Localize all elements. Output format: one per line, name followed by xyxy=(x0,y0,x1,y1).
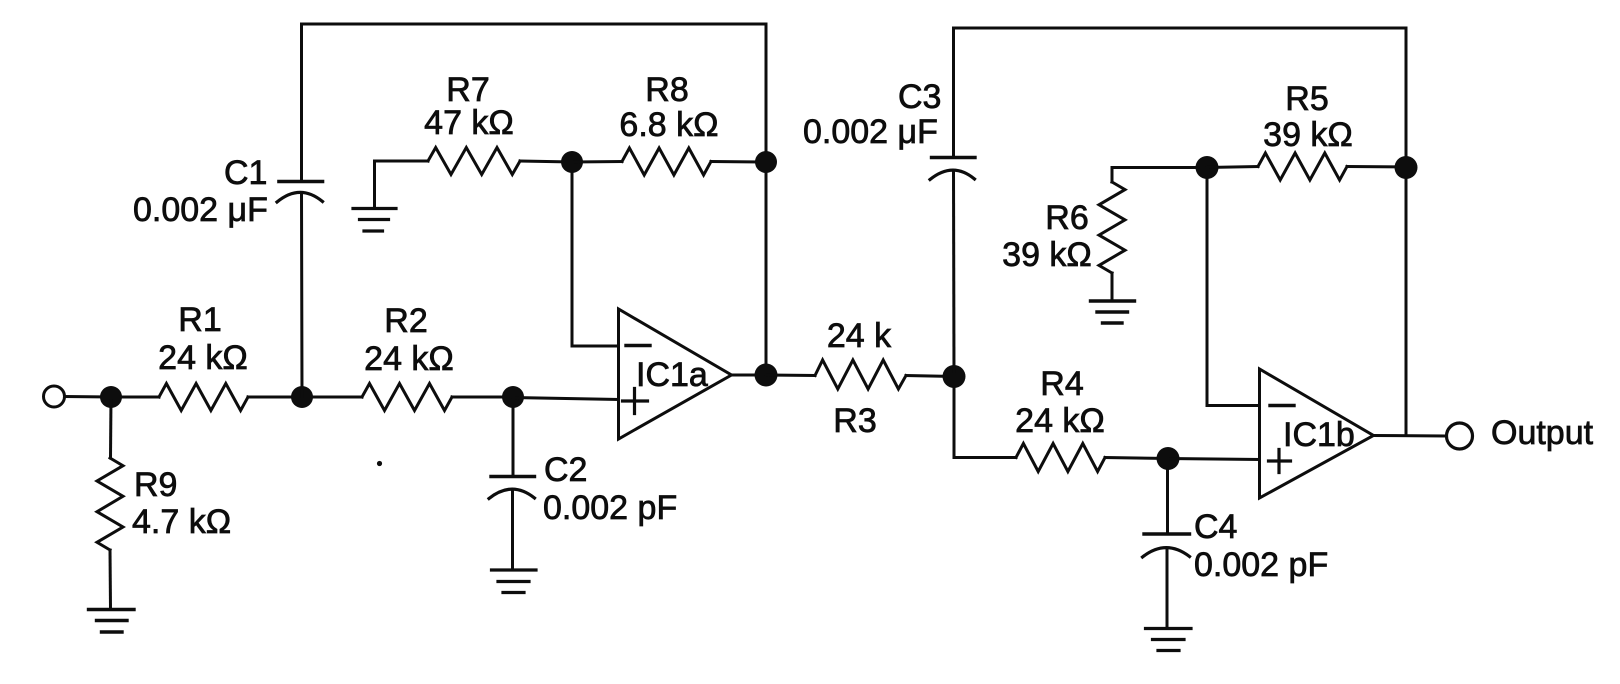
node E junction dot xyxy=(755,151,777,173)
wire R7 ground branch xyxy=(375,161,429,208)
svg-text:39 kΩ: 39 kΩ xyxy=(1002,236,1092,274)
wire node D to IC1a minus input xyxy=(572,162,618,346)
op-amp IC1b xyxy=(1260,369,1374,498)
node D junction dot xyxy=(561,151,583,173)
wire R7 to node D xyxy=(520,161,572,162)
svg-text:24 kΩ: 24 kΩ xyxy=(364,340,454,378)
node F junction dot xyxy=(755,364,778,387)
svg-text:4.7 kΩ: 4.7 kΩ xyxy=(132,503,231,541)
IC1a plus marker xyxy=(623,389,648,414)
node H junction dot xyxy=(1157,447,1180,470)
resistor R9 xyxy=(109,397,113,458)
ground for R7 xyxy=(353,207,396,210)
wire node H to IC1b plus input xyxy=(1168,459,1259,460)
capacitor C4 xyxy=(1166,459,1169,534)
svg-text:39 kΩ: 39 kΩ xyxy=(1263,116,1353,154)
ink speck artifact xyxy=(377,461,382,466)
svg-text:IC1b: IC1b xyxy=(1283,416,1355,454)
node G junction dot xyxy=(943,365,966,388)
svg-text:Output: Output xyxy=(1491,414,1594,452)
node J junction dot xyxy=(1395,156,1418,179)
wire node F to R3 xyxy=(766,374,815,378)
svg-text:C4: C4 xyxy=(1194,508,1237,546)
input terminal circle xyxy=(44,386,65,407)
wire R6 top to node I xyxy=(1112,166,1207,169)
svg-text:R2: R2 xyxy=(384,302,427,340)
wire node G down to R4 xyxy=(954,377,1016,458)
output terminal circle xyxy=(1447,423,1473,449)
capacitor C3 xyxy=(932,156,976,159)
node A junction dot xyxy=(100,386,122,408)
wire input to node A xyxy=(65,395,112,399)
resistor R2 xyxy=(362,384,452,411)
IC1a minus marker xyxy=(626,344,650,347)
svg-text:R5: R5 xyxy=(1285,80,1328,118)
svg-text:IC1a: IC1a xyxy=(636,356,708,394)
capacitor C2 xyxy=(512,397,515,476)
wire R1 to node B xyxy=(248,396,302,399)
wire node I to R5 xyxy=(1207,167,1258,168)
wire IC1a output to node F xyxy=(732,374,767,377)
wire IC1b output to terminal xyxy=(1374,434,1446,438)
svg-text:0.002 pF: 0.002 pF xyxy=(1194,546,1328,584)
svg-text:47 kΩ: 47 kΩ xyxy=(424,104,514,142)
svg-text:0.002 pF: 0.002 pF xyxy=(543,489,677,527)
resistor R6 xyxy=(1111,168,1114,183)
resistor R3 xyxy=(815,360,906,389)
ground for R6 xyxy=(1091,299,1135,302)
svg-text:C1: C1 xyxy=(224,154,267,192)
op-amp IC1a xyxy=(619,309,732,439)
resistor R5 xyxy=(1258,153,1347,180)
wire node D to R8 xyxy=(572,160,622,164)
svg-text:0.002 μF: 0.002 μF xyxy=(133,191,268,229)
wire R4 to node H xyxy=(1105,458,1168,459)
wire node A to R1 xyxy=(111,396,159,399)
svg-text:R9: R9 xyxy=(134,466,177,504)
wire R8 to node E xyxy=(711,160,766,164)
ground for C4 xyxy=(1146,627,1192,630)
wire top feedback loop 2 xyxy=(954,28,1407,436)
svg-text:0.002 μF: 0.002 μF xyxy=(803,113,938,151)
node C junction dot xyxy=(502,386,524,408)
wire node C to IC1a plus input xyxy=(513,398,618,400)
resistor R4 xyxy=(1016,444,1105,472)
svg-text:R6: R6 xyxy=(1045,199,1088,237)
svg-text:R4: R4 xyxy=(1040,365,1083,403)
svg-text:R1: R1 xyxy=(178,301,221,339)
IC1b minus marker xyxy=(1270,404,1294,407)
node I junction dot xyxy=(1196,156,1219,179)
svg-text:R8: R8 xyxy=(645,71,688,109)
resistor R7 xyxy=(428,148,520,175)
svg-text:24 k: 24 k xyxy=(827,317,892,355)
node B junction dot xyxy=(291,386,313,408)
capacitor C1 xyxy=(279,180,323,184)
wire R3 to node G xyxy=(906,376,954,377)
svg-text:6.8 kΩ: 6.8 kΩ xyxy=(619,106,718,144)
svg-text:C2: C2 xyxy=(544,451,587,489)
resistor R1 xyxy=(159,384,248,411)
wire top feedback loop 1 xyxy=(302,24,767,375)
ground for C2 xyxy=(492,568,537,571)
wire R2 to node C xyxy=(452,396,513,399)
svg-text:C3: C3 xyxy=(898,78,941,116)
svg-text:24 kΩ: 24 kΩ xyxy=(1015,402,1105,440)
wire R5 to node J xyxy=(1347,165,1406,169)
svg-text:24 kΩ: 24 kΩ xyxy=(158,339,248,377)
ground for R9 xyxy=(89,608,135,611)
wire node B to R2 xyxy=(302,396,362,399)
resistor R8 xyxy=(622,148,711,175)
svg-text:R3: R3 xyxy=(833,402,876,440)
wire node I to IC1b minus input xyxy=(1207,168,1259,406)
IC1b plus marker xyxy=(1269,450,1291,473)
